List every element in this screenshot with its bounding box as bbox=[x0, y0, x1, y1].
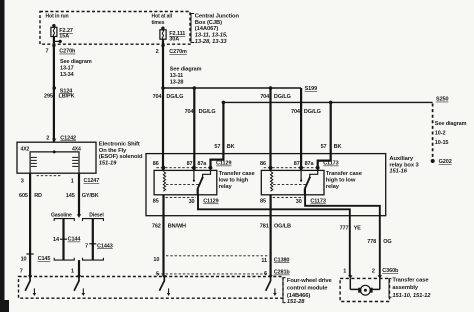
svg-text:S199: S199 bbox=[305, 86, 317, 92]
svg-text:7: 7 bbox=[20, 268, 23, 274]
svg-text:86: 86 bbox=[260, 161, 266, 167]
svg-text:relay box 3: relay box 3 bbox=[389, 162, 419, 168]
svg-text:Four-wheel drive: Four-wheel drive bbox=[287, 278, 333, 284]
svg-text:OG/LB: OG/LB bbox=[274, 223, 291, 229]
svg-text:C1443: C1443 bbox=[97, 243, 113, 249]
svg-text:781: 781 bbox=[260, 223, 269, 229]
svg-text:605: 605 bbox=[19, 193, 28, 199]
svg-text:C281b: C281b bbox=[274, 270, 291, 276]
svg-text:Auxiliary: Auxiliary bbox=[389, 156, 413, 162]
svg-text:(ESOF) solenoid: (ESOF) solenoid bbox=[99, 154, 143, 160]
svg-text:DG/LG: DG/LG bbox=[166, 94, 183, 100]
svg-text:13-34: 13-34 bbox=[60, 72, 75, 78]
svg-text:Electronic Shift: Electronic Shift bbox=[99, 142, 140, 148]
svg-text:RD: RD bbox=[34, 193, 42, 199]
svg-text:704: 704 bbox=[185, 109, 195, 115]
svg-text:OG: OG bbox=[383, 239, 391, 245]
svg-text:57: 57 bbox=[321, 144, 327, 150]
svg-text:14: 14 bbox=[53, 237, 60, 243]
svg-text:704: 704 bbox=[153, 94, 163, 100]
svg-text:Box (CJB): Box (CJB) bbox=[195, 20, 222, 26]
svg-text:86: 86 bbox=[153, 161, 159, 167]
svg-text:704: 704 bbox=[260, 94, 270, 100]
svg-text:See diagram: See diagram bbox=[435, 121, 467, 127]
svg-text:C145: C145 bbox=[38, 256, 51, 262]
svg-text:10-15: 10-15 bbox=[435, 140, 449, 146]
svg-text:Hot at all: Hot at all bbox=[152, 14, 173, 20]
svg-text:1: 1 bbox=[343, 269, 346, 275]
svg-text:C1247: C1247 bbox=[84, 178, 100, 184]
svg-text:295: 295 bbox=[44, 94, 53, 100]
svg-text:C144: C144 bbox=[68, 237, 82, 243]
svg-text:S250: S250 bbox=[436, 97, 448, 103]
svg-text:1: 1 bbox=[71, 179, 74, 185]
svg-text:relay: relay bbox=[326, 184, 340, 190]
svg-text:C1129: C1129 bbox=[203, 199, 218, 205]
svg-text:On the Fly: On the Fly bbox=[99, 148, 127, 154]
svg-text:778: 778 bbox=[367, 239, 376, 245]
svg-text:2: 2 bbox=[156, 49, 159, 55]
svg-text:3: 3 bbox=[21, 179, 24, 185]
svg-text:15A: 15A bbox=[59, 34, 69, 40]
svg-text:151-19: 151-19 bbox=[99, 160, 117, 166]
svg-text:high to low: high to low bbox=[326, 178, 356, 184]
svg-text:C360b: C360b bbox=[382, 268, 399, 274]
svg-text:C270m: C270m bbox=[169, 49, 187, 55]
svg-text:151-16: 151-16 bbox=[389, 168, 407, 174]
svg-text:See diagram: See diagram bbox=[170, 66, 202, 72]
svg-text:13-17: 13-17 bbox=[60, 66, 74, 72]
svg-text:30A: 30A bbox=[169, 37, 179, 43]
svg-text:(14A067): (14A067) bbox=[195, 26, 219, 32]
svg-text:assembly: assembly bbox=[392, 285, 419, 291]
svg-text:777: 777 bbox=[340, 225, 349, 231]
svg-text:13-28: 13-28 bbox=[170, 79, 184, 85]
svg-text:10: 10 bbox=[153, 257, 159, 263]
svg-text:C1242: C1242 bbox=[60, 135, 76, 141]
svg-text:87: 87 bbox=[187, 161, 193, 167]
svg-text:Gasoline: Gasoline bbox=[51, 212, 72, 218]
svg-text:2: 2 bbox=[372, 269, 375, 275]
svg-text:87: 87 bbox=[294, 161, 300, 167]
svg-text:85: 85 bbox=[153, 199, 159, 205]
svg-text:30: 30 bbox=[296, 199, 302, 205]
svg-text:87a: 87a bbox=[197, 161, 207, 167]
svg-text:LB/PK: LB/PK bbox=[59, 94, 75, 100]
svg-text:control module: control module bbox=[287, 286, 328, 292]
svg-text:2: 2 bbox=[46, 136, 49, 142]
svg-text:7: 7 bbox=[46, 49, 49, 55]
svg-text:151-10, 151-12: 151-10, 151-12 bbox=[392, 293, 431, 299]
svg-text:C270h: C270h bbox=[59, 49, 76, 55]
svg-text:13-11: 13-11 bbox=[170, 73, 183, 79]
svg-text:BN/WH: BN/WH bbox=[168, 223, 186, 229]
svg-text:1: 1 bbox=[71, 268, 74, 274]
svg-text:151-28: 151-28 bbox=[287, 299, 305, 305]
svg-text:BK: BK bbox=[334, 144, 342, 150]
svg-text:C1380: C1380 bbox=[274, 257, 290, 263]
svg-text:DG/LG: DG/LG bbox=[199, 109, 216, 115]
svg-text:Transfer case: Transfer case bbox=[392, 278, 429, 284]
svg-text:Diesel: Diesel bbox=[89, 212, 104, 218]
svg-text:BK: BK bbox=[227, 144, 235, 150]
svg-text:times: times bbox=[152, 20, 165, 26]
svg-text:11: 11 bbox=[261, 258, 267, 264]
svg-text:13-28, 13-33: 13-28, 13-33 bbox=[195, 39, 228, 45]
svg-text:13-11, 13-15,: 13-11, 13-15, bbox=[195, 33, 228, 39]
svg-text:YE: YE bbox=[354, 225, 362, 231]
svg-text:762: 762 bbox=[152, 223, 161, 229]
svg-text:Central Junction: Central Junction bbox=[195, 13, 240, 19]
svg-text:DG/LG: DG/LG bbox=[304, 109, 321, 115]
svg-text:85: 85 bbox=[260, 199, 266, 205]
svg-text:(14B466): (14B466) bbox=[287, 293, 311, 299]
svg-text:C1173: C1173 bbox=[310, 199, 325, 205]
svg-text:Transfer case: Transfer case bbox=[326, 171, 363, 177]
svg-text:C1129: C1129 bbox=[216, 161, 231, 167]
svg-text:57: 57 bbox=[214, 144, 220, 150]
svg-text:704: 704 bbox=[291, 109, 301, 115]
svg-text:Transfer case: Transfer case bbox=[219, 171, 256, 177]
svg-text:See diagram: See diagram bbox=[60, 59, 92, 65]
svg-text:GY/BK: GY/BK bbox=[82, 193, 99, 199]
svg-text:10: 10 bbox=[21, 257, 27, 263]
svg-text:relay: relay bbox=[219, 184, 233, 190]
svg-text:10-2: 10-2 bbox=[435, 131, 446, 137]
svg-text:4X2: 4X2 bbox=[21, 147, 30, 153]
svg-text:DG/LG: DG/LG bbox=[274, 94, 291, 100]
svg-text:G202: G202 bbox=[439, 159, 452, 165]
svg-text:30: 30 bbox=[189, 199, 195, 205]
svg-text:Hot in run: Hot in run bbox=[46, 14, 69, 20]
svg-text:87a: 87a bbox=[305, 161, 315, 167]
svg-text:145: 145 bbox=[66, 193, 75, 199]
svg-text:low to high: low to high bbox=[219, 178, 249, 184]
svg-text:C1173: C1173 bbox=[323, 161, 338, 167]
svg-text:7: 7 bbox=[85, 244, 88, 250]
